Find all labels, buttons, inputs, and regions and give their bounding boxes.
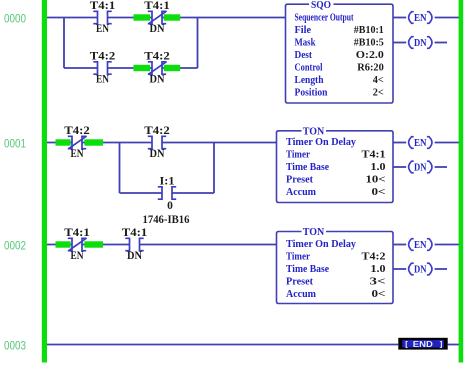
contact XIC T4:1/DN: [122, 227, 148, 262]
wire branch row to contact T4:2/EN: [64, 67, 98, 69]
coil SQO DN output: [393, 37, 447, 49]
svg-text:DN: DN: [127, 250, 143, 262]
svg-text:Time Base: Time Base: [286, 264, 329, 275]
wire branch left vertical rung 0000: [63, 18, 65, 69]
wire branch right vertical rung 0000: [197, 18, 199, 69]
svg-text:EN: EN: [71, 148, 85, 160]
svg-text:1.0: 1.0: [371, 162, 386, 173]
coil SQO EN output: [393, 12, 459, 24]
svg-text:0<: 0<: [372, 187, 386, 198]
wire rung 0003 to END: [47, 344, 398, 346]
wire branch right vertical rung 0001: [213, 143, 215, 194]
svg-text:T4:2: T4:2: [144, 125, 170, 137]
coil TON T4:2 EN output: [393, 239, 459, 251]
svg-text:T4:1: T4:1: [122, 227, 148, 239]
svg-text:4<: 4<: [373, 75, 384, 86]
svg-text:Time Base: Time Base: [286, 162, 329, 173]
wire rung 0002 to TON block: [140, 244, 277, 246]
coil TON T4:1 DN output: [393, 161, 447, 173]
svg-text:T4:2: T4:2: [64, 125, 90, 137]
wire rung 0002 to contact T4:1/DN: [82, 244, 129, 246]
svg-text:O:2.0: O:2.0: [356, 50, 384, 61]
svg-text:R6:20: R6:20: [357, 63, 384, 74]
svg-text:Position: Position: [295, 88, 328, 99]
contact XIO T4:2/DN (highlighted): [134, 51, 181, 86]
svg-text:Preset: Preset: [286, 277, 313, 288]
svg-text:Timer On Delay: Timer On Delay: [286, 137, 357, 148]
svg-text:0<: 0<: [372, 289, 386, 300]
END rung marker (selected): [398, 338, 447, 350]
svg-text:DN: DN: [150, 148, 166, 160]
contact XIC I:1/0: [158, 176, 176, 213]
svg-text:Control: Control: [295, 63, 323, 74]
svg-text:T4:1: T4:1: [64, 227, 90, 239]
svg-text:1.0: 1.0: [371, 264, 386, 275]
wire branch left vertical rung 0001: [119, 143, 121, 194]
svg-text:#B10:1: #B10:1: [354, 25, 384, 36]
svg-text:T4:1: T4:1: [362, 150, 386, 161]
svg-text:10<: 10<: [366, 175, 386, 186]
svg-text:Preset: Preset: [286, 175, 313, 186]
timer block TON T4:1: [277, 125, 394, 202]
svg-text:0001: 0001: [4, 136, 26, 150]
wire branch row to vertical: [162, 67, 197, 69]
svg-text:#B10:5: #B10:5: [354, 38, 384, 49]
wire rung 0000 to SQO block: [162, 17, 285, 19]
svg-text:T4:2: T4:2: [144, 51, 170, 63]
svg-text:T4:2: T4:2: [90, 51, 116, 63]
svg-text:EN: EN: [414, 239, 427, 251]
svg-text:T4:2: T4:2: [362, 252, 386, 263]
coil TON T4:2 DN output: [393, 263, 447, 275]
svg-text:DN: DN: [414, 162, 427, 174]
svg-text:Mask: Mask: [295, 38, 316, 49]
svg-text:EN: EN: [96, 23, 110, 35]
wire branch row from contact I:1: [172, 192, 214, 194]
svg-text:T4:1: T4:1: [144, 0, 170, 12]
left power rail (energized): [42, 0, 47, 363]
wire rung 0001 rail to contact T4:2/EN: [47, 142, 72, 144]
svg-text:Length: Length: [295, 75, 324, 86]
svg-text:SQO: SQO: [311, 0, 331, 11]
timer block TON T4:2: [277, 226, 394, 303]
svg-text:1746-IB16: 1746-IB16: [143, 212, 190, 226]
contact XIO T4:1/EN (highlighted): [56, 227, 104, 262]
svg-text:0003: 0003: [4, 338, 26, 352]
svg-text:EN: EN: [71, 250, 85, 262]
svg-text:3<: 3<: [370, 277, 386, 288]
sequencer output block SQO R6:20: [286, 0, 394, 103]
wire rung 0003 END to rail: [448, 344, 459, 346]
svg-text:TON: TON: [303, 226, 325, 238]
wire branch row between contacts: [108, 67, 152, 69]
svg-text:EN: EN: [96, 74, 110, 86]
contact XIO T4:1/DN (highlighted): [134, 0, 181, 35]
svg-text:0000: 0000: [4, 11, 26, 25]
svg-text:DN: DN: [414, 37, 427, 49]
svg-text:END: END: [413, 340, 433, 349]
svg-text:T4:1: T4:1: [90, 0, 116, 12]
wire rung 0001 to contact T4:2/DN: [82, 142, 152, 144]
wire rung 0001 to TON block: [162, 142, 276, 144]
svg-text:Sequencer Output: Sequencer Output: [295, 13, 354, 24]
svg-text:0: 0: [167, 200, 173, 212]
svg-text:I:1: I:1: [160, 176, 175, 188]
svg-text:File: File: [295, 25, 312, 36]
contact XIC T4:2/EN: [90, 51, 116, 86]
svg-text:Timer: Timer: [286, 252, 310, 263]
svg-text:Accum: Accum: [286, 289, 316, 300]
coil TON T4:1 EN output: [393, 137, 459, 149]
svg-text:0002: 0002: [4, 238, 26, 252]
svg-text:Timer On Delay: Timer On Delay: [286, 239, 357, 250]
svg-text:TON: TON: [303, 125, 325, 137]
wire rung 0002 rail to contact T4:1/EN: [47, 244, 72, 246]
svg-text:Accum: Accum: [286, 187, 316, 198]
contact XIC T4:1/EN: [90, 0, 116, 35]
svg-text:EN: EN: [414, 12, 427, 24]
svg-text:DN: DN: [414, 264, 427, 276]
svg-text:Dest: Dest: [295, 50, 313, 61]
wire rung 0000 rail to contact T4:1/EN: [47, 17, 98, 19]
svg-text:Timer: Timer: [286, 150, 310, 161]
svg-text:DN: DN: [150, 23, 166, 35]
svg-text:2<: 2<: [373, 88, 384, 99]
right power rail (energized): [459, 0, 464, 363]
svg-text:EN: EN: [414, 137, 427, 149]
contact XIO T4:2/EN (highlighted): [56, 125, 104, 160]
wire rung 0000 between contacts: [108, 17, 152, 19]
contact XIC T4:2/DN: [144, 125, 170, 160]
wire branch row to contact I:1: [120, 192, 163, 194]
svg-text:DN: DN: [150, 74, 166, 86]
